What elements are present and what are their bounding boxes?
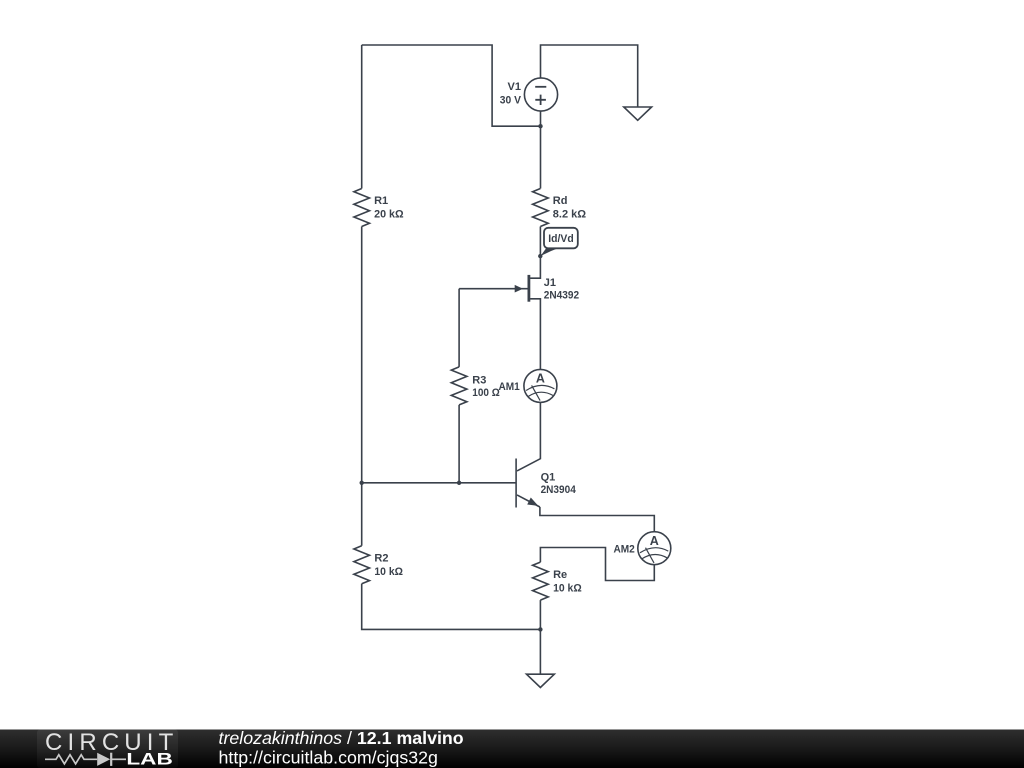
svg-text:Re: Re — [553, 569, 567, 581]
svg-text:10 kΩ: 10 kΩ — [374, 566, 403, 578]
svg-text:AM2: AM2 — [614, 544, 635, 556]
svg-text:8.2 kΩ: 8.2 kΩ — [553, 209, 586, 221]
svg-text:trelozakinthinos / 12.1 malvin: trelozakinthinos / 12.1 malvino — [219, 728, 464, 748]
svg-text:LAB: LAB — [126, 751, 173, 768]
svg-text:Q1: Q1 — [541, 471, 556, 483]
svg-text:http://circuitlab.com/cjqs32g: http://circuitlab.com/cjqs32g — [219, 747, 438, 767]
svg-text:2N3904: 2N3904 — [541, 484, 577, 496]
svg-text:A: A — [650, 534, 659, 548]
svg-text:A: A — [536, 372, 545, 386]
svg-text:V1: V1 — [508, 81, 521, 93]
svg-text:R3: R3 — [472, 374, 486, 386]
svg-text:R2: R2 — [374, 552, 388, 564]
svg-text:Id/Vd: Id/Vd — [548, 233, 573, 245]
svg-text:R1: R1 — [374, 195, 388, 207]
svg-text:10 kΩ: 10 kΩ — [553, 582, 582, 594]
svg-text:100 Ω: 100 Ω — [472, 387, 500, 399]
svg-text:20 kΩ: 20 kΩ — [374, 209, 404, 221]
svg-text:AM1: AM1 — [499, 381, 520, 393]
svg-text:30 V: 30 V — [500, 94, 522, 106]
svg-text:Rd: Rd — [553, 195, 568, 207]
svg-text:J1: J1 — [544, 277, 556, 289]
svg-text:2N4392: 2N4392 — [544, 290, 579, 302]
